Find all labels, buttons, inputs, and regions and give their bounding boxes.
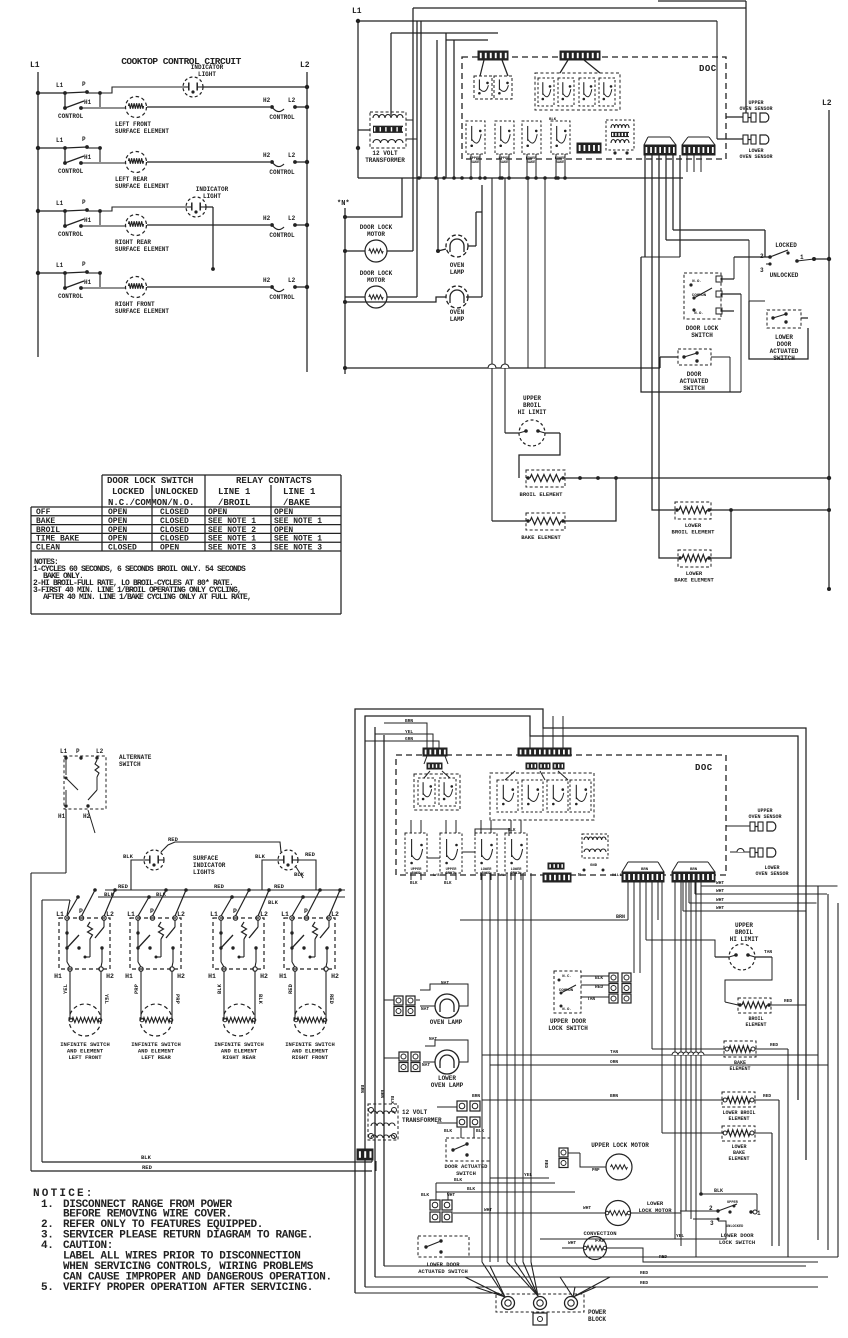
svg-text:L1: L1 — [30, 61, 40, 70]
svg-text:SURFACE ELEMENT: SURFACE ELEMENT — [115, 246, 169, 253]
svg-text:L1: L1 — [210, 911, 218, 918]
svg-text:SWITCH: SWITCH — [683, 385, 705, 392]
svg-text:DOOR ACTUATED: DOOR ACTUATED — [445, 1163, 489, 1170]
svg-text:MOTOR: MOTOR — [367, 231, 385, 238]
svg-text:BROIL ELEMENT: BROIL ELEMENT — [672, 529, 716, 536]
svg-text:BROIL: BROIL — [446, 872, 457, 876]
svg-text:HI LIMIT: HI LIMIT — [518, 409, 547, 416]
svg-text:L2: L2 — [288, 277, 296, 284]
svg-text:LIGHT: LIGHT — [203, 193, 221, 200]
svg-text:UPPER: UPPER — [523, 395, 541, 402]
svg-text:BRN: BRN — [690, 868, 698, 872]
svg-text:TRANSFORMER: TRANSFORMER — [402, 1117, 442, 1124]
svg-text:BLK: BLK — [454, 1177, 462, 1183]
svg-text:GND: GND — [590, 864, 598, 868]
svg-text:DOOR: DOOR — [687, 371, 702, 378]
svg-text:H1: H1 — [208, 973, 216, 980]
svg-text:RELAY CONTACTS: RELAY CONTACTS — [236, 476, 312, 486]
svg-text:N: N — [578, 872, 581, 878]
svg-text:RIGHT FRONT: RIGHT FRONT — [115, 301, 155, 308]
svg-text:WHT: WHT — [583, 1205, 591, 1211]
svg-text:ALTERNATE: ALTERNATE — [119, 754, 152, 761]
svg-text:LIGHTS: LIGHTS — [193, 869, 215, 876]
svg-text:RED: RED — [784, 998, 792, 1004]
svg-text:H1: H1 — [54, 973, 62, 980]
svg-text:SWITCH: SWITCH — [456, 1170, 476, 1177]
svg-text:BAKE: BAKE — [527, 161, 536, 165]
svg-text:UPPER DOOR: UPPER DOOR — [550, 1018, 586, 1025]
svg-text:B/L: B/L — [498, 873, 504, 878]
svg-text:YEL: YEL — [405, 729, 413, 735]
svg-text:DOOR LOCK SWITCH: DOOR LOCK SWITCH — [107, 476, 193, 486]
svg-text:12 VOLT: 12 VOLT — [402, 1109, 428, 1116]
svg-text:RIGHT FRONT: RIGHT FRONT — [292, 1054, 329, 1061]
svg-text:RED: RED — [770, 1042, 778, 1048]
svg-text:2: 2 — [709, 1205, 713, 1212]
svg-text:H2: H2 — [260, 973, 268, 980]
svg-text:H1: H1 — [58, 813, 66, 820]
svg-text:POWER: POWER — [588, 1309, 606, 1316]
svg-text:WHT: WHT — [716, 880, 724, 886]
svg-text:CONTROL: CONTROL — [58, 231, 84, 238]
svg-text:YEL: YEL — [103, 994, 110, 1005]
svg-text:L1: L1 — [56, 200, 64, 207]
svg-text:H2: H2 — [263, 277, 271, 284]
svg-text:AFTER 40 MIN. LINE 1/BAKE CYCL: AFTER 40 MIN. LINE 1/BAKE CYCLING ONLY A… — [43, 593, 251, 602]
svg-text:BLK: BLK — [255, 853, 266, 860]
svg-text:DOOR LOCK: DOOR LOCK — [686, 325, 719, 332]
svg-text:UPPER: UPPER — [735, 922, 753, 929]
svg-text:BLK: BLK — [421, 1192, 429, 1198]
svg-text:BRN: BRN — [359, 1085, 365, 1093]
svg-text:OVEN SENSOR: OVEN SENSOR — [739, 154, 772, 160]
svg-text:INDICATOR: INDICATOR — [191, 64, 224, 71]
svg-text:DOC: DOC — [699, 64, 717, 74]
svg-text:BLK: BLK — [268, 899, 279, 906]
svg-text:L2: L2 — [177, 911, 185, 918]
svg-text:RED: RED — [640, 1270, 648, 1276]
svg-text:WHT: WHT — [716, 897, 724, 903]
svg-text:P: P — [82, 81, 86, 88]
svg-text:DOOR LOCK: DOOR LOCK — [360, 224, 393, 231]
svg-text:MOTOR: MOTOR — [367, 277, 385, 284]
svg-text:LOWER: LOWER — [438, 1075, 456, 1082]
svg-text:ACTUATED: ACTUATED — [770, 348, 799, 355]
svg-text:BLK: BLK — [216, 983, 223, 994]
svg-text:L2: L2 — [106, 911, 114, 918]
svg-text:L2: L2 — [331, 911, 339, 918]
svg-text:BAKE: BAKE — [471, 161, 480, 165]
svg-text:L2: L2 — [300, 61, 310, 70]
svg-text:BLOCK: BLOCK — [588, 1316, 606, 1323]
svg-text:OVEN SENSOR: OVEN SENSOR — [748, 814, 781, 820]
svg-text:H1: H1 — [84, 279, 92, 286]
svg-text:BRN: BRN — [641, 868, 649, 872]
svg-text:LOWER: LOWER — [647, 1200, 664, 1207]
svg-text:BRN: BRN — [405, 718, 413, 724]
svg-text:CONTROL: CONTROL — [58, 168, 84, 175]
svg-text:NAT: NAT — [422, 1062, 430, 1068]
svg-text:BAKE: BAKE — [556, 161, 565, 165]
svg-text:LOWER: LOWER — [775, 334, 793, 341]
svg-text:RED: RED — [142, 1164, 153, 1171]
svg-text:LEFT FRONT: LEFT FRONT — [68, 1054, 102, 1061]
svg-text:PRP: PRP — [592, 1169, 600, 1173]
svg-text:L1: L1 — [56, 82, 64, 89]
svg-text:LINE 1: LINE 1 — [218, 487, 251, 497]
svg-text:INDICATOR: INDICATOR — [196, 186, 229, 193]
svg-text:4.: 4. — [41, 1240, 54, 1252]
svg-text:BAKE: BAKE — [412, 872, 421, 876]
svg-text:OVEN SENSOR: OVEN SENSOR — [739, 106, 772, 112]
svg-text:LEFT REAR: LEFT REAR — [115, 176, 148, 183]
svg-text:LOCKED: LOCKED — [775, 242, 797, 249]
svg-text:L1: L1 — [56, 137, 64, 144]
svg-text:ELEMENT: ELEMENT — [728, 1156, 749, 1162]
svg-text:RED: RED — [640, 1280, 648, 1286]
svg-text:LOWER DOOR: LOWER DOOR — [426, 1261, 460, 1268]
svg-text:L1: L1 — [56, 911, 64, 918]
svg-text:BLK: BLK — [410, 882, 418, 886]
svg-text:OVEN LAMP: OVEN LAMP — [430, 1019, 463, 1026]
svg-text:5.: 5. — [41, 1282, 54, 1294]
svg-text:CONTROL: CONTROL — [58, 113, 84, 120]
svg-text:OVEN SENSOR: OVEN SENSOR — [755, 871, 788, 877]
svg-text:UPPER LOCK MOTOR: UPPER LOCK MOTOR — [591, 1142, 649, 1149]
svg-text:L1: L1 — [56, 262, 64, 269]
svg-text:H1: H1 — [84, 99, 92, 106]
svg-text:SURFACE: SURFACE — [193, 855, 219, 862]
svg-text:SURFACE ELEMENT: SURFACE ELEMENT — [115, 308, 169, 315]
svg-text:L2: L2 — [822, 99, 832, 108]
svg-text:PRP: PRP — [133, 983, 140, 994]
svg-text:2: 2 — [760, 253, 764, 260]
svg-text:H1L1: H1L1 — [612, 874, 622, 878]
svg-text:NAT: NAT — [429, 1036, 437, 1042]
svg-text:WHT: WHT — [716, 905, 724, 911]
svg-text:ORN: ORN — [610, 1059, 618, 1065]
svg-text:COOKTOP CONTROL CIRCUIT: COOKTOP CONTROL CIRCUIT — [121, 56, 241, 67]
svg-text:P: P — [76, 748, 80, 755]
svg-text:BROIL: BROIL — [511, 872, 522, 876]
svg-text:L2: L2 — [260, 911, 268, 918]
svg-text:LIGHT: LIGHT — [198, 71, 216, 78]
svg-text:BROIL: BROIL — [735, 929, 753, 936]
svg-text:TAN: TAN — [764, 949, 772, 955]
svg-text:H2: H2 — [106, 973, 114, 980]
svg-text:BAKE: BAKE — [500, 161, 509, 165]
svg-text:H1: H1 — [125, 973, 133, 980]
svg-text:LEFT REAR: LEFT REAR — [141, 1054, 171, 1061]
svg-text:BRN: BRN — [610, 1093, 618, 1099]
svg-text:WHT: WHT — [568, 1240, 576, 1246]
svg-text:OVEN: OVEN — [450, 262, 465, 269]
svg-text:L2: L2 — [96, 748, 104, 755]
svg-text:CONTROL: CONTROL — [269, 114, 295, 121]
svg-text:BLK: BLK — [257, 994, 264, 1005]
svg-text:1: 1 — [757, 1210, 761, 1217]
svg-text:L2: L2 — [288, 215, 296, 222]
svg-text:CONVECTION: CONVECTION — [583, 1230, 616, 1237]
svg-text:HI LIMIT: HI LIMIT — [730, 936, 759, 943]
svg-text:PRP: PRP — [174, 994, 181, 1005]
svg-text:H2: H2 — [263, 215, 271, 222]
svg-text:BLK: BLK — [714, 1188, 723, 1194]
svg-text:RED: RED — [287, 983, 294, 994]
svg-text:DOOR: DOOR — [777, 341, 792, 348]
svg-text:1.: 1. — [41, 1199, 54, 1211]
svg-text:BLK: BLK — [389, 1096, 395, 1104]
svg-text:RED: RED — [305, 851, 316, 858]
svg-text:BROIL: BROIL — [523, 402, 541, 409]
svg-text:RED: RED — [763, 1093, 771, 1099]
svg-text:RIGHT REAR: RIGHT REAR — [222, 1054, 256, 1061]
svg-text:UNLOCKED: UNLOCKED — [155, 487, 199, 497]
svg-text:RED: RED — [274, 883, 285, 890]
svg-text:YEL: YEL — [62, 983, 69, 994]
svg-text:RED: RED — [328, 994, 335, 1005]
svg-text:YEL: YEL — [676, 1233, 684, 1239]
svg-text:LINE 1: LINE 1 — [283, 487, 316, 497]
svg-text:VERIFY PROPER OPERATION AFTER: VERIFY PROPER OPERATION AFTER SERVICING. — [63, 1282, 313, 1294]
svg-text:BAKE ELEMENT: BAKE ELEMENT — [521, 534, 561, 541]
svg-text:L2: L2 — [288, 152, 296, 159]
svg-text:ELEMENT: ELEMENT — [745, 1022, 766, 1028]
svg-text:H1: H1 — [84, 154, 92, 161]
svg-text:DOC: DOC — [695, 763, 713, 773]
svg-text:3: 3 — [710, 1220, 714, 1227]
svg-text:RED: RED — [543, 1160, 549, 1168]
svg-text:H2: H2 — [263, 152, 271, 159]
svg-text:DOOR LOCK: DOOR LOCK — [360, 270, 393, 277]
svg-text:INDICATOR: INDICATOR — [193, 862, 226, 869]
svg-text:P: P — [82, 261, 86, 268]
svg-text:BRN: BRN — [379, 1090, 385, 1098]
svg-text:P: P — [82, 136, 86, 143]
svg-text:LOCK SWITCH: LOCK SWITCH — [719, 1239, 755, 1246]
svg-text:SURFACE ELEMENT: SURFACE ELEMENT — [115, 128, 169, 135]
svg-text:RED: RED — [214, 883, 225, 890]
svg-text:UNLOCKED: UNLOCKED — [726, 1225, 744, 1229]
svg-text:RIGHT REAR: RIGHT REAR — [115, 239, 151, 246]
svg-text:UNLOCKED: UNLOCKED — [770, 272, 799, 279]
svg-text:NAT: NAT — [441, 980, 449, 986]
svg-text:*N*: *N* — [337, 200, 350, 208]
svg-text:CONTROL: CONTROL — [269, 169, 295, 176]
svg-text:H1: H1 — [84, 217, 92, 224]
svg-text:H2: H2 — [331, 973, 339, 980]
svg-text:L1: L1 — [127, 911, 135, 918]
svg-text:OVEN LAMP: OVEN LAMP — [431, 1082, 464, 1089]
svg-text:SURFACE ELEMENT: SURFACE ELEMENT — [115, 183, 169, 190]
svg-text:LAMP: LAMP — [450, 316, 465, 323]
svg-text:BLK: BLK — [476, 1128, 484, 1134]
svg-text:LEFT FRONT: LEFT FRONT — [115, 121, 151, 128]
svg-text:BLK: BLK — [467, 1186, 475, 1192]
svg-text:H2: H2 — [177, 973, 185, 980]
svg-text:WHT: WHT — [716, 888, 724, 894]
svg-text:BLK: BLK — [141, 1154, 152, 1161]
svg-text:3: 3 — [760, 267, 764, 274]
svg-text:N.O.: N.O. — [694, 312, 704, 316]
svg-text:CONTROL: CONTROL — [269, 294, 295, 301]
svg-text:BLK: BLK — [444, 882, 452, 886]
svg-text:BLK: BLK — [549, 118, 557, 122]
svg-text:L1: L1 — [352, 7, 362, 16]
svg-text:YEL: YEL — [524, 1172, 532, 1178]
svg-text:ELEMENT: ELEMENT — [728, 1116, 749, 1122]
svg-text:TRANSFORMER: TRANSFORMER — [365, 157, 405, 164]
svg-text:LAMP: LAMP — [450, 269, 465, 276]
svg-text:N.O.: N.O. — [562, 1008, 572, 1012]
svg-text:N.C.: N.C. — [562, 975, 572, 979]
svg-text:GRN: GRN — [405, 736, 413, 742]
svg-text:L1: L1 — [60, 748, 68, 755]
svg-text:ACTUATED: ACTUATED — [680, 378, 709, 385]
svg-text:ACTUATED SWITCH: ACTUATED SWITCH — [418, 1268, 468, 1275]
svg-text:H2: H2 — [263, 97, 271, 104]
svg-text:N.O.: N.O. — [692, 280, 702, 284]
svg-text:BAKE ELEMENT: BAKE ELEMENT — [674, 577, 714, 584]
svg-text:LOCKED: LOCKED — [112, 487, 145, 497]
svg-text:LOCK SWITCH: LOCK SWITCH — [548, 1025, 588, 1032]
svg-text:BRN: BRN — [616, 914, 625, 920]
svg-text:SWITCH: SWITCH — [691, 332, 713, 339]
svg-text:P: P — [82, 199, 86, 206]
svg-text:L2: L2 — [288, 97, 296, 104]
svg-text:12 VOLT: 12 VOLT — [372, 150, 398, 157]
svg-text:ELEMENT: ELEMENT — [729, 1066, 750, 1072]
svg-text:SWITCH: SWITCH — [119, 761, 141, 768]
svg-text:BROIL ELEMENT: BROIL ELEMENT — [520, 491, 564, 498]
svg-text:RED: RED — [118, 883, 129, 890]
svg-text:TAN: TAN — [610, 1049, 618, 1055]
svg-text:CONTROL: CONTROL — [58, 293, 84, 300]
svg-text:BRN: BRN — [472, 1093, 480, 1099]
svg-text:WHT: WHT — [484, 1207, 492, 1213]
svg-text:H1: H1 — [279, 973, 287, 980]
svg-text:L1: L1 — [281, 911, 289, 918]
svg-text:L/B: L/B — [433, 873, 440, 878]
svg-text:NAT: NAT — [421, 1006, 429, 1012]
svg-text:CONTROL: CONTROL — [269, 232, 295, 239]
svg-text:OVEN: OVEN — [450, 309, 465, 316]
svg-text:UPPER: UPPER — [727, 1201, 739, 1205]
svg-text:BLK: BLK — [444, 1128, 452, 1134]
svg-text:BLK: BLK — [123, 853, 134, 860]
